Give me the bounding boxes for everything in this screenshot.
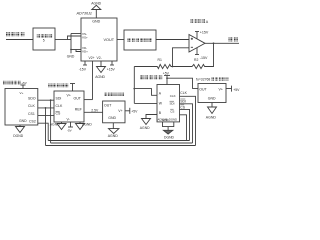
reference U5 bbox=[103, 101, 125, 123]
ground GND at input bbox=[70, 50, 72, 54]
ground AGND at U5 bbox=[109, 129, 119, 134]
wire SDI to bus bbox=[180, 104, 193, 143]
power +5V at U6 bbox=[231, 86, 233, 92]
node A tie bbox=[133, 88, 135, 90]
wire output bbox=[205, 42, 239, 44]
svg-text:AGND: AGND bbox=[206, 116, 217, 120]
svg-text:VOUT: VOUT bbox=[104, 38, 115, 42]
label conditioning circuit 调理电路 5 bbox=[37, 34, 53, 38]
power -15V at op-amp bbox=[196, 48, 198, 55]
svg-text:AGND: AGND bbox=[95, 75, 105, 79]
svg-text:GND: GND bbox=[208, 97, 216, 101]
node CLK bus tap bbox=[45, 107, 47, 109]
svg-text:CS1: CS1 bbox=[28, 112, 35, 116]
potentiometer U2 bbox=[157, 85, 180, 122]
svg-text:-5V: -5V bbox=[67, 129, 72, 133]
MCU U3 bbox=[5, 89, 38, 126]
wire U4 DGND bbox=[79, 122, 81, 124]
svg-text:DGND: DGND bbox=[169, 117, 177, 121]
wire U6 GND down bbox=[211, 103, 213, 108]
regulator U6 bbox=[198, 84, 226, 103]
power +15V at op-amp bbox=[196, 32, 198, 39]
wire filter to op-amp bbox=[156, 39, 189, 41]
svg-text:CLK: CLK bbox=[28, 104, 35, 108]
wire CLK to bus bbox=[180, 96, 196, 145]
wire node to inverting input bbox=[173, 48, 190, 67]
svg-text:B: B bbox=[159, 111, 162, 115]
wire U1 pin to -15V bbox=[84, 61, 86, 65]
label output 输出 bbox=[229, 37, 238, 41]
svg-text:V+: V+ bbox=[20, 91, 24, 95]
svg-text:VD+: VD+ bbox=[82, 49, 88, 53]
svg-text:-15V: -15V bbox=[79, 67, 87, 71]
svg-text:OUT: OUT bbox=[199, 88, 207, 92]
svg-text:OUT: OUT bbox=[74, 96, 82, 100]
label voltage reference 电压基准源 bbox=[104, 93, 124, 96]
power +15V at U1 bbox=[110, 64, 114, 66]
node pot supply junction bbox=[166, 77, 168, 79]
op-amp A1 bbox=[189, 35, 205, 53]
wire CS1 to DAC CS bbox=[38, 115, 54, 117]
wire box1 to U1 input cluster bbox=[55, 39, 71, 41]
label DAC 数模转换器 bbox=[48, 84, 68, 88]
resistor R2 bbox=[191, 64, 207, 68]
svg-text:fo=32768: fo=32768 bbox=[196, 77, 210, 81]
wire U5 GND down bbox=[112, 123, 114, 129]
label input-signal 被测信号 bbox=[6, 32, 24, 36]
block low-pass filter 低通滤波电路 bbox=[124, 30, 156, 50]
svg-text:CS2: CS2 bbox=[29, 119, 36, 123]
node output feedback junction bbox=[213, 42, 215, 44]
wire U4 AGND bbox=[61, 122, 63, 124]
ground DGND at U3 bbox=[16, 127, 25, 133]
svg-text:SDI: SDI bbox=[180, 100, 186, 104]
svg-text:5: 5 bbox=[43, 39, 45, 43]
wire VOUT to filter bbox=[117, 39, 124, 41]
svg-text:SDI: SDI bbox=[56, 96, 62, 100]
power -15V at U1 bbox=[83, 64, 87, 66]
svg-text:+5V: +5V bbox=[131, 109, 138, 113]
wire U3 GND down bbox=[19, 125, 21, 127]
wire R2 to node bbox=[173, 66, 191, 68]
svg-text:SDO: SDO bbox=[28, 96, 36, 100]
svg-text:V+: V+ bbox=[67, 93, 71, 97]
svg-text:CLK: CLK bbox=[170, 94, 176, 98]
power bar at DAC V+ bbox=[70, 83, 75, 85]
wire bus CLK to pot CLK bbox=[46, 145, 196, 147]
wire V+ to +5V bbox=[226, 88, 232, 90]
IC U1 AD736 bbox=[81, 18, 117, 61]
wire U1 bottom pin to 2.5V node bbox=[92, 61, 94, 100]
svg-text:DGND: DGND bbox=[82, 123, 93, 127]
svg-text:V+: V+ bbox=[118, 109, 122, 113]
resistor R1 bbox=[156, 64, 173, 68]
label MCU 控制单片机 bbox=[3, 81, 21, 85]
svg-text:VS+: VS+ bbox=[82, 35, 88, 39]
svg-text:V-: V- bbox=[67, 117, 71, 121]
svg-text:A: A bbox=[159, 92, 162, 96]
svg-text:R2: R2 bbox=[194, 58, 198, 62]
svg-text:SDI: SDI bbox=[170, 102, 175, 106]
svg-text:REF: REF bbox=[75, 108, 82, 112]
svg-text:CLK: CLK bbox=[56, 104, 63, 108]
svg-text:AGND: AGND bbox=[140, 126, 150, 130]
svg-text:OUT: OUT bbox=[104, 104, 112, 108]
svg-text:+15V: +15V bbox=[107, 67, 116, 71]
wire feedback down bbox=[206, 43, 214, 66]
svg-text:AGND: AGND bbox=[50, 123, 60, 127]
svg-text:CS: CS bbox=[170, 110, 174, 114]
wire CS to bus bbox=[180, 109, 190, 140]
wire U1 pin to AGND below bbox=[100, 61, 102, 67]
svg-text:CLK: CLK bbox=[180, 91, 187, 95]
svg-text:+15V: +15V bbox=[200, 31, 209, 35]
wire pin VD+ bbox=[76, 50, 81, 52]
DAC U4 bbox=[54, 91, 84, 122]
svg-text:+5V: +5V bbox=[233, 88, 240, 92]
wire CS2 drop bbox=[38, 123, 48, 140]
svg-text:CS: CS bbox=[56, 112, 62, 116]
svg-text:2.5V: 2.5V bbox=[91, 108, 99, 112]
wire SDO bus drop bbox=[50, 100, 52, 143]
svg-text:-15V: -15V bbox=[200, 56, 208, 60]
svg-text:R1: R1 bbox=[158, 58, 162, 62]
wire U4 OUT to U1 bbox=[84, 99, 93, 101]
wire SDO to DAC SDI bbox=[38, 99, 54, 101]
svg-text:AGND: AGND bbox=[91, 2, 101, 6]
svg-text:GND: GND bbox=[108, 116, 116, 120]
ground AGND at U6 bbox=[208, 107, 217, 114]
wire CLK bus drop bbox=[45, 108, 47, 146]
power +5V at U5 bbox=[129, 108, 131, 114]
svg-text:W: W bbox=[159, 101, 163, 105]
wire R1 to potentiometer W bbox=[134, 66, 155, 68]
svg-text:A: A bbox=[206, 20, 209, 24]
wire DGND pin of U2 right side bbox=[180, 115, 187, 141]
wire bus SDO to pot SDI bbox=[51, 142, 193, 144]
ground DGND at U4 bbox=[76, 124, 85, 130]
ground DGND at U2 bbox=[163, 130, 172, 134]
svg-text:GND: GND bbox=[19, 119, 27, 123]
svg-text:V2+ V2-: V2+ V2- bbox=[89, 56, 102, 60]
svg-text:V+: V+ bbox=[219, 88, 223, 92]
svg-text:GND: GND bbox=[92, 20, 100, 24]
label digital potentiometer 数字电位器 bbox=[140, 75, 162, 79]
node input ground junction bbox=[70, 49, 72, 51]
wire to pin VS+ bbox=[68, 36, 82, 40]
svg-text:DGND: DGND bbox=[164, 136, 175, 140]
svg-text:AD736Jz: AD736Jz bbox=[76, 11, 93, 15]
wire to pin VS- and down to pin VD- bbox=[70, 34, 72, 50]
svg-text:+5V: +5V bbox=[21, 81, 26, 85]
wire pin A to R1 node bbox=[134, 89, 157, 96]
wire U1 top pin to AGND bbox=[95, 10, 97, 19]
svg-text:DGND: DGND bbox=[13, 134, 24, 138]
label low-pass filter bbox=[127, 38, 151, 42]
power -5V at U4 bbox=[70, 122, 72, 127]
wire U1 pin to +15V bbox=[111, 61, 113, 65]
ground AGND at pot B bbox=[142, 119, 151, 125]
svg-text:AD5245: AD5245 bbox=[158, 117, 169, 121]
ground AGND at U4 bbox=[57, 124, 66, 130]
block conditioning circuit bbox=[33, 28, 55, 50]
ground AGND below U1 bbox=[97, 67, 106, 73]
svg-text:GND: GND bbox=[67, 55, 75, 59]
svg-text:AGND: AGND bbox=[108, 134, 119, 138]
wire U4 REF to U5 OUT 2.5V bbox=[84, 111, 103, 113]
svg-text:CS: CS bbox=[180, 105, 185, 109]
wire CLK to DAC CLK bbox=[38, 107, 54, 109]
node SDO bus tap bbox=[50, 99, 52, 101]
wire pot supply to regulator OUT bbox=[167, 78, 198, 88]
wire bus CS2 to pot CS bbox=[48, 140, 189, 142]
wire V+ of U5 to +5V bbox=[125, 110, 130, 112]
wire input signal bbox=[6, 39, 33, 41]
wire U2 bottom pins down bbox=[163, 122, 174, 127]
label op-amp 集成运放A bbox=[191, 19, 206, 23]
node inverting input junction bbox=[172, 66, 174, 68]
wire pin B to AGND bbox=[146, 115, 157, 119]
ground AGND above U1 bbox=[92, 5, 101, 9]
